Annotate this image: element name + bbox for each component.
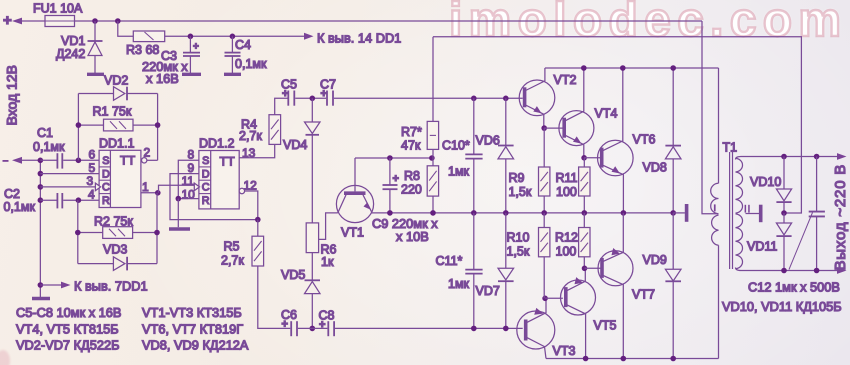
node junction VD6 bottom <box>503 210 509 216</box>
resistor R1 <box>78 105 157 131</box>
capacitor C7 <box>320 78 523 106</box>
node junction VD8/VD9 on rail <box>670 210 676 216</box>
node junction R9 bottom <box>541 210 547 216</box>
transistor VT1 <box>336 158 373 240</box>
ground left rail <box>32 297 50 300</box>
node junction C2/R2 riser <box>76 197 82 203</box>
svg-text:+: + <box>3 12 12 29</box>
capacitor C1 <box>33 126 99 169</box>
svg-text:R11: R11 <box>556 171 578 185</box>
svg-text:C1: C1 <box>37 126 53 140</box>
svg-text:2,7к: 2,7к <box>239 129 262 143</box>
svg-text:VD5: VD5 <box>281 268 305 282</box>
node junction VT5 collector on rail <box>583 356 589 362</box>
svg-text:VD11: VD11 <box>747 240 777 254</box>
node junction VT5 emitter / VT7 base / R12 <box>582 266 588 272</box>
svg-text:10: 10 <box>182 188 196 202</box>
wire +12V input arrow <box>12 18 22 25</box>
node junction C5/C7/VD4 <box>310 96 316 102</box>
svg-text:1,5к: 1,5к <box>509 185 532 199</box>
svg-text:47к: 47к <box>401 139 421 153</box>
wire emitter rail <box>372 212 674 214</box>
resistor R4 <box>239 98 288 144</box>
svg-text:9: 9 <box>188 161 195 175</box>
node junction VT7 collector on rail <box>621 356 627 362</box>
wire VT5 base <box>545 297 563 299</box>
wire input arrow row 2 <box>12 157 40 164</box>
node minus terminal <box>3 160 9 162</box>
node junction C3 <box>188 34 194 40</box>
wire output bottom <box>736 267 847 274</box>
node junction C9 top <box>387 155 393 161</box>
wire DD1.2 pin12 with inversion bubble <box>239 188 258 219</box>
flip-flop DD1.1 <box>95 137 140 208</box>
transistor VT6 <box>598 68 656 213</box>
node junction R7/R8 <box>429 155 435 161</box>
svg-text:8: 8 <box>188 148 195 162</box>
svg-text:R12: R12 <box>555 231 578 245</box>
node junction C9 bottom <box>387 210 393 216</box>
resistor R6 <box>306 223 336 280</box>
svg-text:х 10В: х 10В <box>396 229 429 244</box>
svg-text:С12 1мк х 500В: С12 1мк х 500В <box>748 280 840 295</box>
capacitor C4 <box>225 36 267 73</box>
node junction C10 bottom <box>471 210 477 216</box>
svg-text:0,1мк: 0,1мк <box>33 140 65 154</box>
svg-text:VD3: VD3 <box>103 243 127 257</box>
diode VD7 <box>476 213 514 329</box>
ground under VD1 <box>87 73 104 76</box>
diode VD5 <box>281 268 320 328</box>
node junction VT4 collector on rail <box>581 65 587 71</box>
svg-text:6: 6 <box>89 148 96 162</box>
wire collector rail bottom <box>546 358 719 360</box>
wire DD1.1 pin1 output <box>141 192 158 194</box>
svg-text:+: + <box>193 42 199 53</box>
wire R2/VD3 loop left riser <box>77 200 79 263</box>
svg-text:х 16В: х 16В <box>146 71 179 86</box>
transistor VT7 <box>598 213 655 359</box>
resistor R11 <box>556 158 591 213</box>
svg-text:DD1.2: DD1.2 <box>199 137 234 151</box>
svg-text:+: + <box>282 88 288 100</box>
node junction R11 bottom <box>582 210 588 216</box>
wire VT1 base row <box>355 157 432 159</box>
svg-text:С5-С8 10мк х 16В: С5-С8 10мк х 16В <box>16 305 121 320</box>
svg-text:VD6: VD6 <box>476 134 500 148</box>
svg-text:VD7: VD7 <box>476 284 500 298</box>
node junction C12 bottom <box>814 268 820 274</box>
svg-text:R5: R5 <box>224 240 240 254</box>
svg-text:FU1 10A: FU1 10A <box>33 2 83 16</box>
resistor R7 <box>401 121 439 158</box>
svg-text:VT1: VT1 <box>341 226 364 240</box>
svg-text:R7*: R7* <box>401 125 422 139</box>
svg-text:2,7к: 2,7к <box>221 254 244 268</box>
node R1 right <box>155 122 161 128</box>
svg-text:C: C <box>102 182 110 194</box>
capacitor C2 <box>4 187 100 214</box>
wire DD1.1 pin5 <box>40 173 99 175</box>
svg-text:100: 100 <box>556 185 577 199</box>
svg-text:VD4: VD4 <box>283 138 307 152</box>
diode VD11 <box>747 213 792 271</box>
svg-text:1мк: 1мк <box>448 277 470 291</box>
pin numbers DD1.2 <box>182 146 258 202</box>
diode VD2 <box>78 74 157 101</box>
fuse FU1 <box>45 16 75 27</box>
svg-text:C4: C4 <box>235 38 251 52</box>
transformer T1 primary winding I <box>711 141 737 246</box>
wire R3 branch <box>118 21 134 36</box>
svg-text:1мк: 1мк <box>448 165 470 179</box>
resistor R9 <box>509 128 550 213</box>
svg-text:DD1.1: DD1.1 <box>99 137 134 151</box>
node junction C12 top <box>814 154 820 160</box>
wire rail to primary top <box>718 68 720 183</box>
node junction C11 bottom <box>471 326 477 332</box>
svg-text:11: 11 <box>182 174 195 188</box>
svg-text:5: 5 <box>89 161 96 175</box>
transistor VT4 <box>559 68 618 158</box>
label parts list column 2 <box>142 305 249 353</box>
wire VT6 base <box>584 157 600 159</box>
wire R1/VD2 loop left riser <box>77 94 79 161</box>
node R1 left <box>76 122 82 128</box>
svg-text:1,5к: 1,5к <box>507 245 530 259</box>
wire collector rail top <box>545 67 719 69</box>
node junction pin10 <box>176 196 182 202</box>
svg-text:Выход ~220 В: Выход ~220 В <box>832 164 849 271</box>
label parts list column 1 <box>16 305 121 353</box>
node R2 right <box>154 230 160 236</box>
svg-text:D: D <box>202 168 210 180</box>
wire DD1.1 pin2 with inversion bubble <box>142 158 158 163</box>
node junction VD10 top <box>781 154 787 160</box>
svg-text:К выв. 7DD1: К выв. 7DD1 <box>74 279 148 294</box>
svg-text:+: + <box>282 319 288 331</box>
svg-text:+: + <box>393 173 399 185</box>
capacitor C12 <box>748 157 840 295</box>
svg-text:1: 1 <box>142 180 149 194</box>
ground under C3 <box>182 73 201 76</box>
svg-text:C2: C2 <box>4 187 20 201</box>
wire to pin 7 DD1 with arrow <box>40 279 147 294</box>
svg-text:VD9: VD9 <box>643 253 667 267</box>
wire +12V rail top <box>75 20 703 22</box>
flip-flop DD1.2 <box>194 137 239 209</box>
resistor R2 <box>78 215 157 239</box>
svg-text:R3 68: R3 68 <box>126 43 159 57</box>
node junction VD10/VD11 <box>781 210 787 216</box>
svg-text:100: 100 <box>556 245 577 259</box>
capacitor C8 <box>319 309 523 337</box>
node junction VD9 bottom <box>670 356 676 362</box>
node junction VD11 bottom <box>781 268 787 274</box>
svg-text:3: 3 <box>87 174 94 188</box>
node junction R8 bottom <box>430 210 436 216</box>
svg-text:0,1мк: 0,1мк <box>4 200 36 214</box>
node junction VD7 bottom <box>503 326 509 332</box>
node junction VT2 emitter / VT4 base / R9 <box>541 125 547 131</box>
svg-text:VT2: VT2 <box>554 73 577 87</box>
node junction VD8 top <box>670 65 676 71</box>
transformer T1 secondary winding II <box>736 158 743 268</box>
capacitor C10 <box>442 98 483 213</box>
svg-text:VD1: VD1 <box>61 34 85 48</box>
wire to pin 14 DD1 with arrow <box>304 31 401 46</box>
node junction pin12/pin9 <box>255 217 261 223</box>
svg-text:VD2: VD2 <box>104 74 128 88</box>
svg-text:C: C <box>202 182 210 194</box>
capacitor C3 <box>142 36 200 86</box>
transistor VT5 <box>561 268 617 358</box>
svg-text:VD10, VD11 КД105Б: VD10, VD11 КД105Б <box>722 299 842 314</box>
node R2 left <box>75 230 81 236</box>
node junction VT6/VT7 emitters on rail <box>621 210 627 216</box>
svg-text:R: R <box>102 195 110 207</box>
transistor VT2 <box>519 68 576 128</box>
wire R1/VD2 loop right riser <box>157 94 159 161</box>
node junction C6/C8/VD5 <box>310 326 316 332</box>
transformer T1 core <box>730 152 733 269</box>
svg-text:VT3: VT3 <box>553 344 576 358</box>
svg-text:VT6, VT7 КТ819Г: VT6, VT7 КТ819Г <box>142 322 243 337</box>
wire DD1.2 pin8 to pin10 <box>178 160 199 198</box>
resistor R5 <box>221 220 290 329</box>
diode VD6 <box>476 98 514 213</box>
svg-text:R10: R10 <box>507 231 530 245</box>
node junction VD6 top <box>503 96 509 102</box>
capacitor C11 <box>436 213 483 329</box>
node junction fuse/VD1 <box>92 18 98 24</box>
svg-text:D: D <box>102 168 110 180</box>
svg-text:R: R <box>202 195 210 207</box>
svg-text:Вход 12В: Вход 12В <box>4 65 20 125</box>
wire +12V drop to primary centre tap <box>702 21 719 214</box>
svg-text:R2 75к: R2 75к <box>94 215 133 229</box>
diode VD1 <box>56 21 103 73</box>
svg-text:S: S <box>202 155 209 167</box>
wire left rail <box>39 160 41 297</box>
svg-text:R1 75к: R1 75к <box>93 105 132 119</box>
capacitor C6 <box>281 308 327 336</box>
wire DD1.2 pin10 <box>178 198 199 200</box>
node junction VT3 emitter / VT5 base / R10 <box>542 296 548 302</box>
wire feedback rail +12 to VD10/VD11 junction <box>433 37 801 213</box>
svg-text:VT4, VT5 КТ815Б: VT4, VT5 КТ815Б <box>16 322 119 337</box>
svg-text:4: 4 <box>88 188 95 202</box>
svg-text:220: 220 <box>401 183 422 197</box>
svg-text:R8: R8 <box>404 169 420 183</box>
svg-text:S: S <box>102 155 109 167</box>
svg-text:C10*: C10* <box>442 139 470 153</box>
svg-text:TT: TT <box>220 155 236 169</box>
ground under C4 <box>224 73 241 76</box>
wire VT7 base <box>585 267 601 269</box>
svg-text:C11*: C11* <box>436 254 463 268</box>
wire VT1 collector to R6 <box>319 213 338 240</box>
capacitor C9 <box>372 158 438 244</box>
wire VT4 base <box>544 127 563 129</box>
node junction pin1 <box>155 190 161 196</box>
svg-text:VT1-VT3 КТ315Б: VT1-VT3 КТ315Б <box>142 305 242 320</box>
diode VD4 <box>283 98 320 223</box>
wire DD1.2 pin9 feedback <box>170 174 258 220</box>
svg-text:R9: R9 <box>509 171 525 185</box>
wire DD1.2 pin13 <box>239 144 275 157</box>
node junction C4 <box>230 34 236 40</box>
svg-text:VD2-VD7 КД522Б: VD2-VD7 КД522Б <box>16 338 119 353</box>
node dots on left rail <box>38 158 44 288</box>
node junction VT4 emitter / VT6 base / R11 <box>581 155 587 161</box>
wire secondary centre tap II to chassis <box>745 205 761 223</box>
diode VD8 <box>643 68 682 213</box>
capacitor C5 <box>281 78 326 106</box>
diode VD3 <box>78 243 157 271</box>
wire R2/VD3 loop right riser <box>156 193 158 264</box>
svg-text:VT6: VT6 <box>633 133 656 147</box>
resistor R8 <box>401 158 439 213</box>
node junction fuse/R3 <box>115 18 121 24</box>
svg-text:+: + <box>321 88 327 100</box>
svg-text:+: + <box>319 319 325 331</box>
svg-text:VD8, VD9 КД212А: VD8, VD9 КД212А <box>142 338 249 353</box>
svg-text:VD8: VD8 <box>643 161 667 175</box>
chassis bar emitter rail <box>673 204 686 222</box>
svg-text:VT5: VT5 <box>594 319 617 333</box>
svg-text:VT7: VT7 <box>632 288 655 302</box>
diode VD9 <box>643 213 682 359</box>
diode VD10 <box>750 157 792 214</box>
svg-text:TT: TT <box>120 154 136 168</box>
wire pin10 ground stem <box>177 199 179 228</box>
node junction VT6 collector on rail <box>620 65 626 71</box>
resistor R3 <box>126 31 304 57</box>
svg-text:VT4: VT4 <box>595 107 618 121</box>
svg-text:VD10: VD10 <box>750 175 781 189</box>
node junction C1/R1 riser <box>76 158 82 164</box>
wire DD1.1 pin3 <box>40 186 95 188</box>
pin numbers DD1.1 <box>87 146 151 202</box>
wire pin1 to DD1.2 pin11 <box>159 185 195 193</box>
transistor VT3 <box>517 298 576 358</box>
svg-text:Д242: Д242 <box>56 47 85 61</box>
resistor R10 <box>507 213 550 298</box>
svg-text:0,1мк: 0,1мк <box>235 57 267 71</box>
node junction C10 top <box>471 96 477 102</box>
wire R7 top feed <box>432 37 434 122</box>
svg-text:К выв. 14 DD1: К выв. 14 DD1 <box>317 31 401 46</box>
wire rail to primary bottom <box>718 245 720 358</box>
svg-text:1к: 1к <box>321 255 334 269</box>
resistor R12 <box>555 213 590 268</box>
wire output top <box>736 153 847 160</box>
ground under DD1.2 <box>169 227 190 230</box>
